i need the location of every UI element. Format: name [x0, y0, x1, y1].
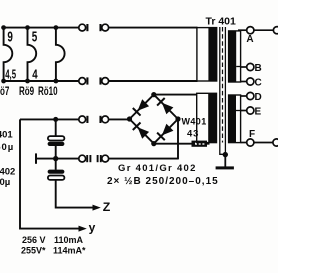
wire resistor to winding — [207, 143, 210, 145]
svg-text:C402: C402 — [0, 167, 15, 178]
capacitor C402 — [48, 170, 65, 180]
svg-text:50µ: 50µ — [0, 142, 14, 153]
wire W1 top heater bus y=28.5 — [2, 27, 79, 29]
wire W4 right segment to below bridge — [109, 158, 178, 160]
connector I on W2 (male) — [99, 77, 101, 84]
svg-text:F: F — [249, 129, 255, 140]
resistor W401 — [192, 141, 210, 147]
svg-text:5: 5 — [32, 29, 38, 45]
diode top-left (apex toward left node) — [133, 99, 149, 115]
terminal bar left of W4 — [35, 153, 37, 163]
connector I on W1 (male) — [99, 24, 101, 31]
junction dots heater tops — [1, 25, 58, 83]
transformer core right line / ground stem — [224, 27, 226, 152]
terminal A wire and circles — [238, 27, 281, 34]
transformer secondary winding upper box — [229, 31, 241, 82]
svg-text:Z: Z — [103, 200, 111, 214]
diode top-right (apex toward top node) — [157, 98, 173, 114]
transformer shield dashed line — [222, 27, 224, 143]
junction dots bridge nodes — [127, 92, 181, 146]
wire W2 heater bus bottom y=80.2 — [2, 80, 79, 82]
wire W1 right segment to transformer — [109, 27, 198, 29]
svg-text:256 V: 256 V — [22, 235, 46, 245]
svg-text:43: 43 — [187, 129, 199, 140]
svg-text:Tr 401: Tr 401 — [206, 16, 237, 28]
svg-text:E: E — [255, 106, 262, 117]
terminal D — [241, 92, 254, 99]
svg-text:114mA*: 114mA* — [53, 246, 86, 256]
wire riser from W4 to bridge right node — [177, 119, 179, 160]
svg-text:50µ: 50µ — [0, 177, 10, 188]
bridge rectifier Gr401/Gr402 — [130, 95, 179, 144]
svg-text:4: 4 — [32, 68, 38, 82]
capacitor C401 — [48, 136, 65, 146]
svg-text:Gr 401/Gr 402: Gr 401/Gr 402 — [118, 163, 197, 174]
terminal C — [241, 78, 254, 85]
terminal E — [241, 107, 254, 114]
svg-text:D: D — [255, 92, 262, 103]
terminal B — [241, 63, 254, 70]
connector I on W3 (female) — [79, 116, 86, 123]
transformer Tr401 primary winding lower box — [197, 93, 217, 142]
transformer Tr401 primary winding upper box — [197, 27, 217, 82]
svg-text:Rö10: Rö10 — [38, 86, 58, 99]
arrowhead y — [79, 226, 87, 232]
svg-text:A: A — [246, 34, 253, 45]
junction dots heater bottoms — [1, 79, 6, 84]
diode bottom-right (apex toward bottom node) — [157, 124, 173, 140]
junction dot ground stem — [223, 152, 228, 157]
svg-text:255V*: 255V* — [21, 246, 46, 256]
left rail from W3 down to y-arrow — [20, 119, 79, 228]
winding divider at tap B — [236, 66, 240, 68]
wire bridge edge bottom-left — [130, 119, 154, 144]
wire bridge top node to transformer — [154, 94, 197, 96]
wire W4 y=159 from terminal bar to connector — [37, 158, 79, 160]
connector II on W4 (male) — [97, 155, 99, 162]
heater Rö7 — [4, 28, 13, 81]
heater Rö10 — [56, 28, 65, 81]
svg-text:W401: W401 — [182, 116, 207, 126]
wire cap stack vertical bottom to Z-arrow — [56, 180, 93, 208]
svg-text:110mA: 110mA — [54, 235, 84, 245]
connector I on W2 (female) — [79, 78, 86, 85]
wire bridge edge top-left — [130, 95, 154, 119]
wire W3 right segment to bridge left node — [109, 118, 131, 120]
connector I on W3 (male) — [99, 116, 101, 123]
wire bridge edge bottom-right — [154, 119, 178, 144]
wire bridge bottom node to resistor — [154, 143, 192, 145]
transformer core left line — [220, 27, 225, 154]
svg-text:C401: C401 — [0, 129, 13, 140]
terminal F wire and circles — [241, 139, 281, 146]
wire W3 y=118.8 from left rail to connector — [20, 118, 79, 120]
svg-text:Rö9: Rö9 — [19, 86, 34, 99]
svg-text:Rö7: Rö7 — [0, 86, 10, 99]
svg-text:4,5: 4,5 — [5, 68, 16, 83]
svg-text:C: C — [255, 78, 262, 89]
ground chassis bar — [216, 166, 234, 169]
svg-text:2× ½B 250/200–0,15: 2× ½B 250/200–0,15 — [107, 176, 219, 187]
arrowhead Z — [93, 205, 101, 211]
svg-text:9: 9 — [7, 29, 13, 45]
wire cap stack vertical middle — [55, 146, 57, 170]
svg-text:y: y — [89, 221, 96, 235]
heater Rö9 — [28, 28, 37, 81]
diode bottom-left (apex toward left node) — [133, 123, 149, 139]
connector II on W4 (female) — [79, 155, 86, 162]
wire cap stack vertical top — [55, 119, 57, 136]
winding divider at tap E — [236, 110, 241, 112]
wire W2 right segment to transformer — [109, 80, 198, 82]
transformer secondary winding lower box — [229, 95, 241, 143]
svg-text:B: B — [255, 63, 262, 74]
junction dot W4/cap — [53, 156, 58, 161]
wire bridge edge top-right — [154, 95, 178, 119]
junction dot W3/cap — [53, 117, 58, 122]
connector I on W1 (female) — [79, 24, 109, 162]
